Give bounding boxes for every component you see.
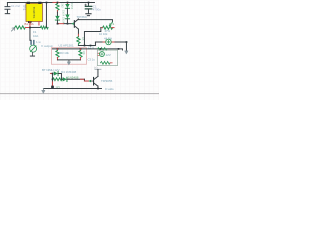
node blob x52 <box>51 86 54 89</box>
red tick row1 left <box>50 72 52 74</box>
wire base jog <box>84 79 88 81</box>
node dot W2 x84 <box>84 45 86 47</box>
terminal arrow left input <box>11 28 14 31</box>
svg-text:10k: 10k <box>82 50 86 55</box>
wire right of block vertical <box>45 2 47 27</box>
node dot <box>29 27 31 29</box>
ground arrow right <box>125 51 128 54</box>
relay RL1 box <box>97 50 117 66</box>
potentiometer RV1 <box>101 22 114 29</box>
node dot bus x88 <box>88 2 90 4</box>
wire top bus <box>7 1 94 3</box>
resistor R mains <box>15 26 26 29</box>
svg-text:(+): (+) <box>94 65 97 69</box>
resistor R2 vertical col57 <box>56 2 59 15</box>
wire pot left leg <box>84 28 100 46</box>
svg-text:4700u: 4700u <box>93 8 101 12</box>
svg-text:C1 2n2: C1 2n2 <box>11 4 20 8</box>
node dots W4 <box>57 48 59 50</box>
wire red segment on bus <box>53 1 59 3</box>
node dot bus x46 <box>46 2 48 4</box>
diode D1 col67 <box>65 2 69 14</box>
pin stub TR1 bottom-left <box>29 21 31 25</box>
wire battery left vertical <box>51 73 53 88</box>
bell component circle <box>30 45 37 52</box>
svg-text:B1 35A: B1 35A <box>24 22 33 26</box>
svg-text:12V: 12V <box>105 53 110 57</box>
transformer TR1 (yellow block) <box>26 2 43 22</box>
svg-text:12V: 12V <box>55 85 60 89</box>
transistor Q2 <box>88 76 98 88</box>
capacitor C2 top-left <box>5 2 10 13</box>
pin stub TR1 bottom-right <box>38 21 40 25</box>
svg-text:10A: 10A <box>33 34 38 38</box>
svg-text:TR2P3S: TR2P3S <box>32 7 36 19</box>
wire resistor to pin <box>25 25 30 28</box>
diode D5 row2 <box>62 77 85 81</box>
resistor R6 row2 <box>52 78 62 81</box>
node dot bus x67 <box>67 2 69 4</box>
wire ground drop right <box>125 42 127 51</box>
resistor on W4 <box>97 47 107 50</box>
node dot col67 base <box>67 23 69 25</box>
node dot W3 right <box>126 41 128 43</box>
wire pin node to R2b <box>30 26 41 28</box>
diode D2 col67 <box>65 14 69 23</box>
sheet edge <box>0 93 159 95</box>
svg-text:U2 AP1501: U2 AP1501 <box>58 44 74 48</box>
pad TR1 bottom-left <box>28 21 31 23</box>
node dot W2 x90 <box>90 45 92 47</box>
svg-text:1N54: 1N54 <box>70 3 74 10</box>
node dot rail x97.5 <box>97 88 99 90</box>
resistor R2b <box>40 26 48 29</box>
svg-text:2k2: 2k2 <box>60 3 64 8</box>
ground mid <box>68 60 70 62</box>
wire down from resistor node <box>29 27 31 40</box>
wire divider bottom <box>57 59 80 61</box>
capacitor C1 reservoir <box>85 2 92 15</box>
meter M1 red leads <box>103 41 114 43</box>
svg-text:TIP3055: TIP3055 <box>101 79 113 83</box>
wire collector rail y19 <box>78 19 112 22</box>
svg-text:R3 10k: R3 10k <box>60 51 69 55</box>
wire meter rail W3 <box>95 41 126 43</box>
resistor R4 vertical x80 <box>79 49 82 60</box>
ground arrow bottom-left <box>42 88 44 90</box>
svg-text:0 volts: 0 volts <box>105 87 114 91</box>
wire Q1 lower lead <box>77 29 79 34</box>
wire ground rail bottom <box>43 87 101 89</box>
switch plates <box>31 40 34 44</box>
diode D4 row1 <box>54 71 62 79</box>
svg-text:TIP36C: TIP36C <box>76 15 87 19</box>
pink subcircuit box <box>51 48 86 65</box>
resistor R3 vertical x57 <box>56 49 59 60</box>
node dot row2 <box>52 78 54 80</box>
wire red emitter lead <box>67 23 71 25</box>
svg-text:1N5408: 1N5408 <box>68 75 79 79</box>
transistor Q1 TIP36C <box>71 19 78 29</box>
svg-text:D4 1N5408: D4 1N5408 <box>61 70 77 74</box>
resistor R5 vertical x78 <box>77 37 80 46</box>
svg-text:TR1: TR1 <box>22 4 26 10</box>
node dot row1 <box>52 73 54 75</box>
svg-text:RV1: RV1 <box>109 22 115 26</box>
meter M1 circle <box>106 39 112 45</box>
diode D3 col57 <box>55 16 59 24</box>
wire divider top W4 <box>52 49 122 50</box>
wire regulated rail W2 <box>78 42 95 46</box>
svg-text:C3 1u: C3 1u <box>87 57 95 61</box>
node dot bus x57 <box>57 2 59 4</box>
net flag +12V <box>94 65 101 76</box>
svg-text:V output: V output <box>41 44 53 48</box>
wire bell stub + bar <box>31 52 33 56</box>
svg-text:BT NiMH 12V: BT NiMH 12V <box>42 68 60 72</box>
node dot col57 base <box>57 23 59 25</box>
